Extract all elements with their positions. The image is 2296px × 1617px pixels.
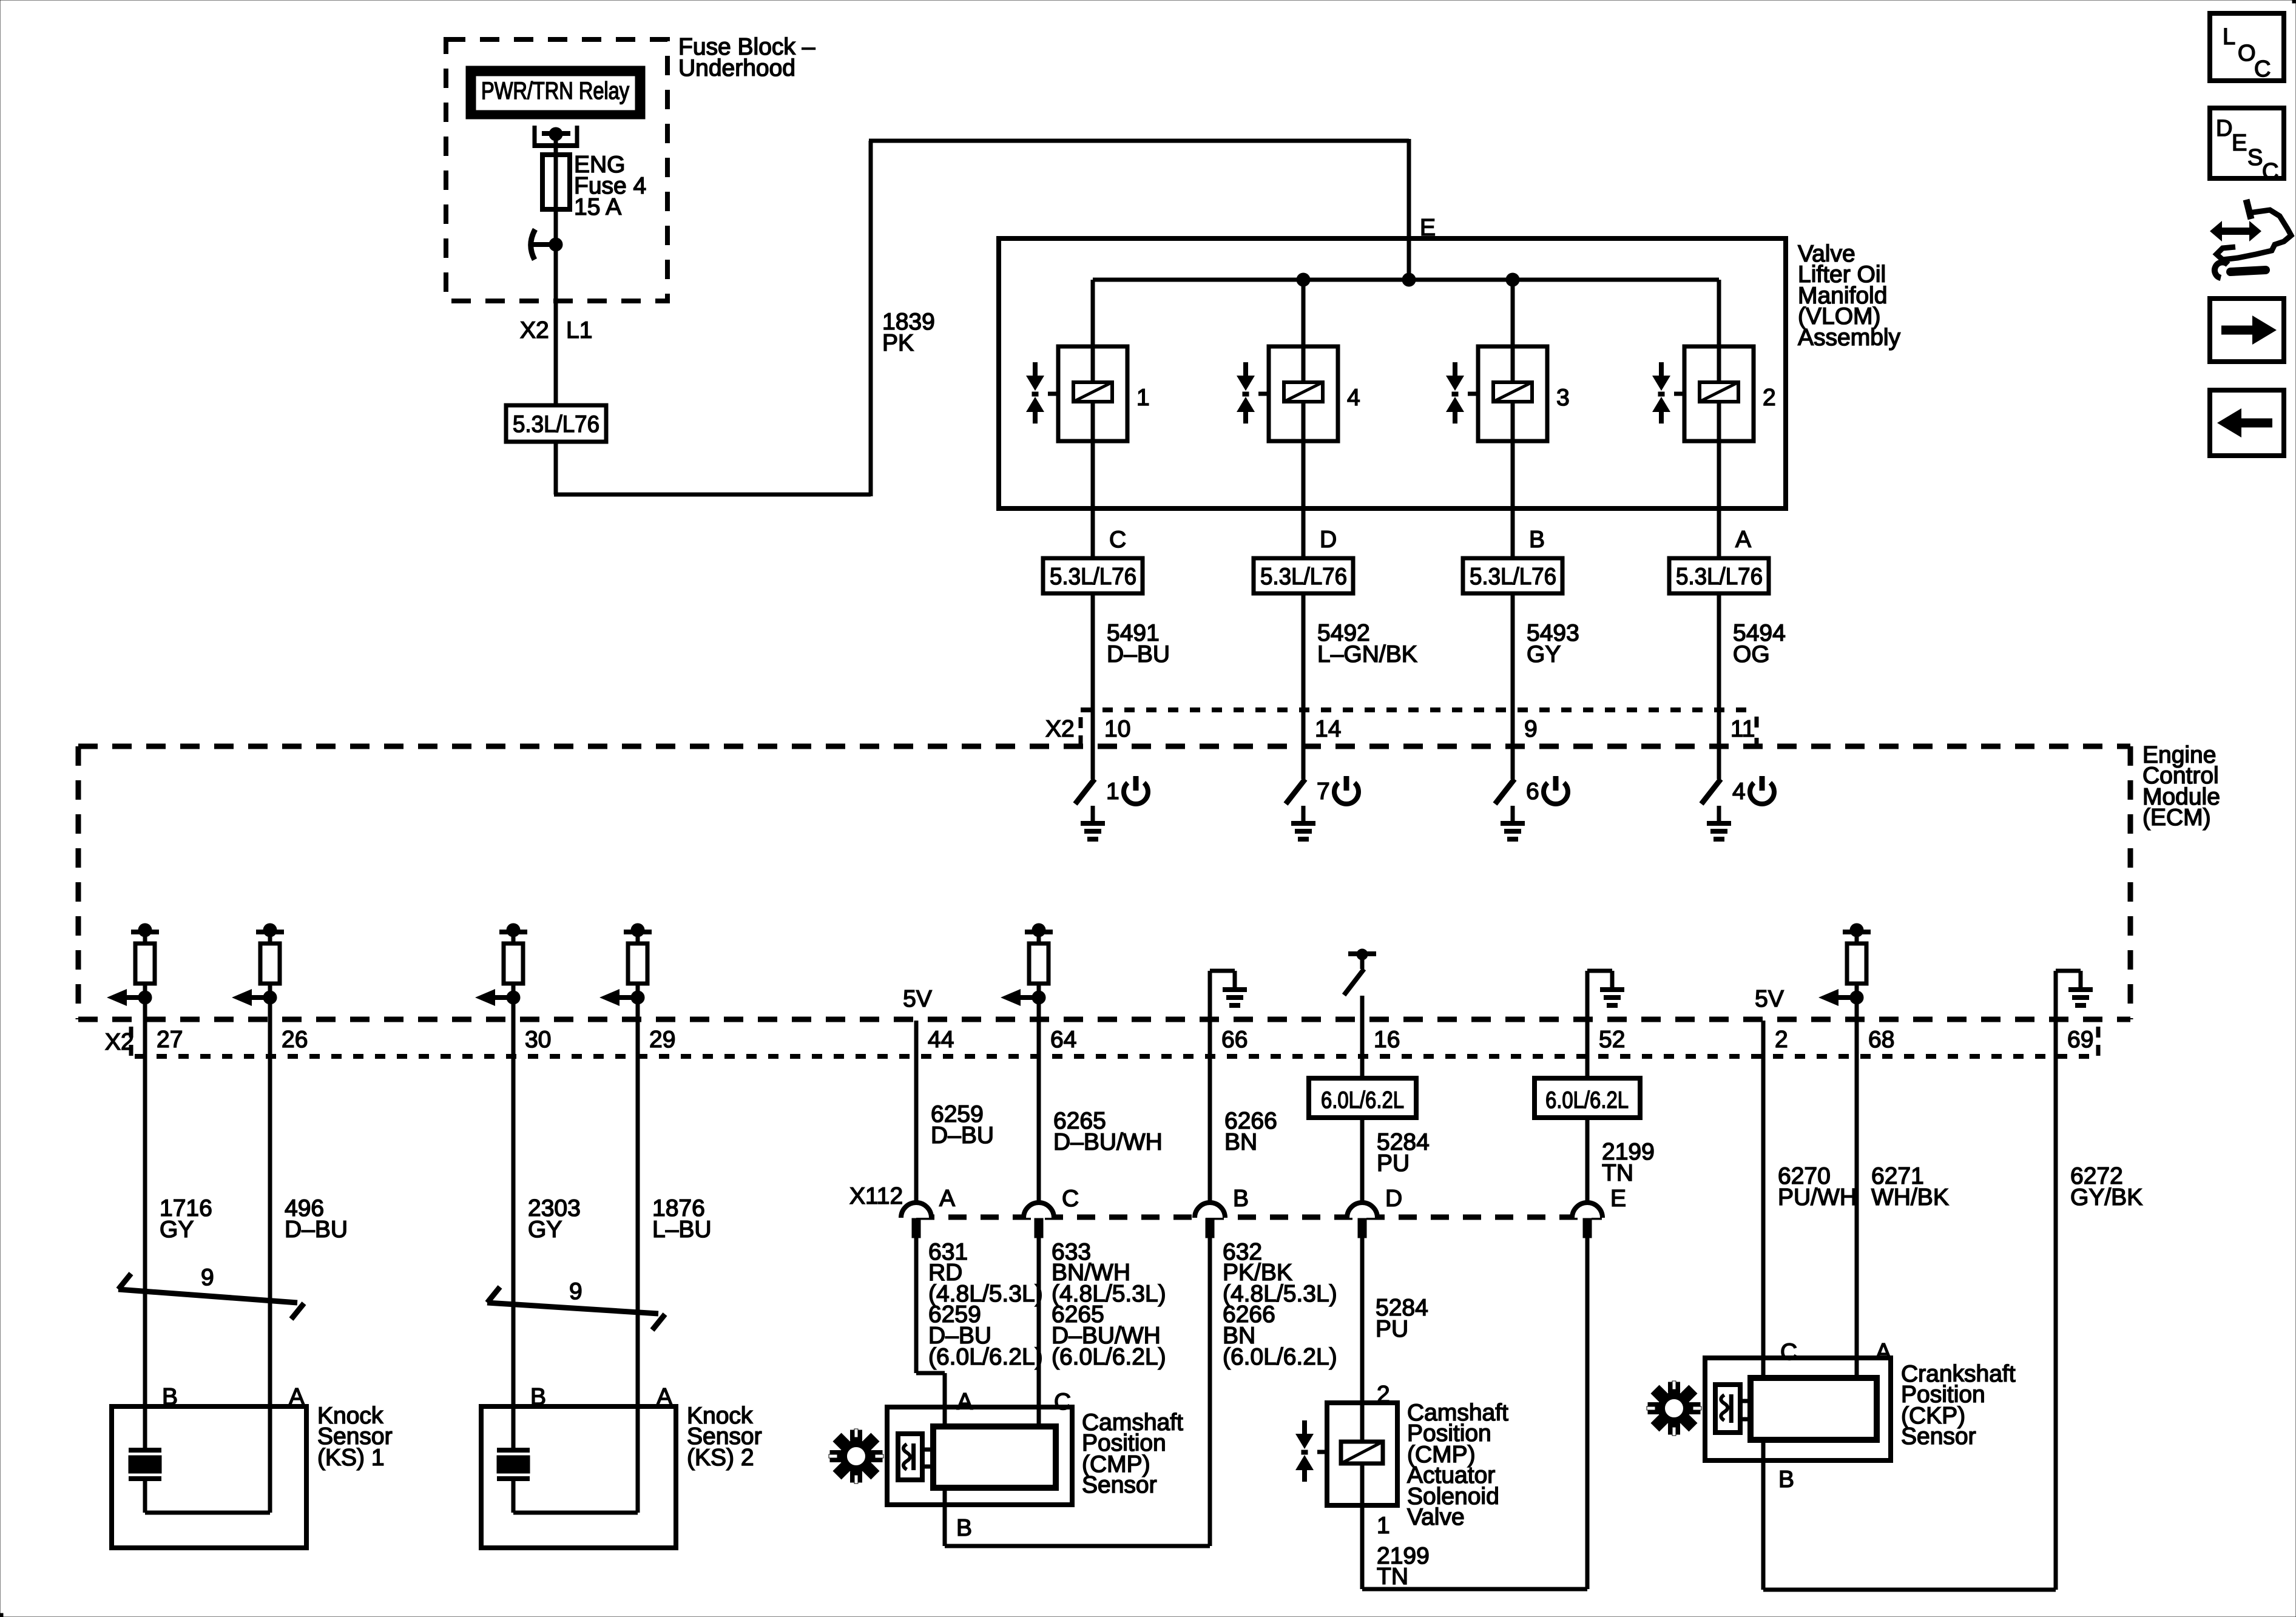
svg-text:GY: GY [1527,641,1561,667]
svg-text:PU: PU [1377,1150,1410,1176]
connector X2 (ECM bottom) dotted line [135,1054,2096,1059]
svg-text:E: E [1610,1186,1626,1212]
svg-text:O: O [2238,41,2256,66]
wire 2199 TN (pin 52) [1585,1021,1590,1589]
svg-text:5V: 5V [1755,986,1784,1012]
svg-text:3: 3 [1556,385,1570,411]
wire switch to 5.3L box [554,245,558,408]
X112 pin A label [939,1186,955,1212]
CMP actuator pin 1 label [1377,1513,1390,1539]
VLOM solenoid valve 3 [1446,280,1570,508]
svg-text:L–BU: L–BU [652,1217,712,1243]
wire solenoid 4 to connector [1302,508,1306,748]
svg-text:15 A: 15 A [574,194,621,220]
svg-text:30: 30 [525,1027,551,1053]
VLOM label [1798,241,1901,351]
CMP sensor hall element [898,1434,922,1480]
connector X2 left bracket [1079,717,1083,745]
wire label 5493 GY [1527,620,1579,667]
ECM pin 52 label [1599,1027,1625,1053]
icon hand with wrench [2210,200,2291,278]
CKP sensor element links [1740,1401,1751,1419]
svg-text:69: 69 [2067,1027,2093,1053]
fuse ENG Fuse 4 15A [542,152,646,220]
KS1 pin B label [162,1384,178,1410]
knock sensor KS2 label [687,1403,762,1471]
engine option box 5.3L/L76 [506,405,606,442]
connector X112 pin B [1195,1203,1225,1238]
ECM dashed box [78,746,2130,1019]
knock sensor KS1 box [112,1406,306,1548]
CMP sensor pin C label [1054,1389,1071,1415]
wire solenoid 2 to connector [1717,508,1721,748]
svg-text:9: 9 [569,1278,582,1305]
knock sensor KS2 box [481,1406,676,1548]
svg-text:D–BU: D–BU [285,1217,348,1243]
wire label 631 RD / 6259 D-BU [928,1239,1043,1370]
wire label 632 PK/BK / 6266 BN [1223,1239,1337,1370]
CKP sensor wire B [1763,1460,2056,1590]
connector X112 label [849,1183,903,1209]
svg-text:4: 4 [1347,385,1360,411]
relay output terminal bracket [533,126,579,148]
svg-text:S: S [2247,145,2263,170]
svg-text:Sensor: Sensor [1901,1423,1976,1450]
wire 6270 PU/WH (pin 2) [1761,1021,1766,1590]
CMP actuator label [1407,1400,1508,1530]
svg-text:D: D [2216,116,2232,141]
svg-text:C: C [2254,56,2271,82]
twisted pair label 9 (KS1) [201,1264,214,1291]
wire label 496 D-BU [285,1195,348,1243]
connector X112 pin A [901,1203,931,1238]
CKP sensor gear icon [1647,1381,1701,1436]
knock sensor KS1 internal wire [145,1511,270,1515]
svg-text:5.3L/L76: 5.3L/L76 [1676,564,1763,590]
svg-text:14: 14 [1315,716,1341,742]
VLOM solenoid valve 4 [1237,280,1360,508]
svg-text:X2: X2 [520,317,549,343]
VLOM pin B label [1529,527,1545,553]
svg-text:44: 44 [928,1027,954,1053]
engine option box 5.3L/L76 (B) [1463,558,1562,593]
CKP sensor hall element [1715,1385,1740,1433]
wire label 633 BN/WH / 6265 D-BU/WH [1052,1239,1166,1370]
ECM pull-up resistor pin 26 [232,923,284,1021]
svg-text:B: B [530,1384,546,1410]
svg-text:9: 9 [201,1264,214,1291]
pin 10 label [1104,716,1130,742]
fuse block - underhood dashed box [446,39,667,301]
ECM low-side driver 4 [1701,746,1774,839]
CKP sensor label [1901,1361,2016,1450]
svg-text:6.0L/6.2L: 6.0L/6.2L [1545,1087,1629,1113]
engine option box 5.3L/L76 (D) [1254,558,1353,593]
wire 2303 GY (pin 30) [512,1021,516,1450]
wire label 6271 WH/BK [1871,1163,1949,1210]
CMP sensor body [933,1426,1056,1488]
svg-text:L1: L1 [566,317,592,343]
CMP actuator valve symbol [1295,1420,1327,1482]
engine option box 6.0L/6.2L (pin 16) [1309,1078,1416,1118]
connector X2 (bottom) label [105,1029,134,1055]
wire label 5491 D–BU [1107,620,1170,667]
svg-text:(ECM): (ECM) [2142,805,2211,831]
svg-text:C: C [1062,1186,1079,1212]
ECM pin 64 label [1050,1027,1076,1053]
svg-text:PU: PU [1376,1316,1408,1342]
svg-text:5.3L/L76: 5.3L/L76 [513,411,599,437]
CKP sensor pin C label [1780,1339,1797,1365]
svg-text:6: 6 [1526,778,1539,805]
wire 6266 BN (pin 66) [1208,1021,1212,1546]
twisted pair symbol KS2 [487,1287,665,1330]
svg-text:C: C [1054,1389,1071,1415]
twisted pair symbol KS1 [118,1274,304,1319]
svg-text:1: 1 [1136,385,1150,411]
CMP sensor pin A label [957,1389,973,1415]
wire label 2199 TN [1602,1139,1655,1186]
connector X112 dashed line [916,1215,1602,1220]
wire label 5284 PU (below X112) [1376,1295,1428,1342]
svg-text:11: 11 [1730,716,1755,742]
svg-text:4: 4 [1732,778,1746,805]
ECM low-side driver 1 [1075,746,1148,839]
svg-text:B: B [1778,1467,1794,1493]
svg-text:X2: X2 [1045,716,1075,742]
wire label 6272 GY/BK [2070,1163,2142,1210]
knock sensor KS1 label [317,1403,393,1471]
svg-text:E: E [2232,130,2247,156]
svg-text:52: 52 [1599,1027,1625,1053]
ECM pin 2 label [1775,1027,1788,1053]
svg-text:27: 27 [157,1027,183,1053]
connector X2 bottom right bracket [2096,1027,2101,1056]
svg-text:BN: BN [1224,1129,1257,1155]
CMP sensor wire B [945,1488,1210,1546]
wire 2199 TN (actuator return) [1362,1505,1587,1589]
wire label 6259 D-BU [931,1101,994,1149]
ECM internal ground pin 69 [2056,971,2093,1021]
connector X2 (VLOM-ECM) dotted line [1081,707,1757,712]
svg-text:Valve: Valve [1407,1504,1465,1530]
icon box arrow right [2210,299,2284,362]
svg-text:2: 2 [1775,1027,1788,1053]
page corner mark top right [2292,0,2296,3]
ECM internal switch pin 16 [1344,949,1376,1021]
ECM pin 30 label [525,1027,551,1053]
connector X2 bottom left bracket [129,1027,133,1056]
VLOM solenoid valve 1 [1026,280,1150,508]
wire label 2303 GY [528,1195,581,1243]
ECM pin 69 label [2067,1027,2093,1053]
ECM pin 66 label [1221,1027,1248,1053]
svg-text:A: A [289,1384,305,1410]
svg-text:9: 9 [1524,716,1538,742]
svg-text:7: 7 [1317,778,1330,805]
svg-text:A: A [957,1389,973,1415]
pin 9 label [1524,716,1538,742]
svg-text:D: D [1320,527,1337,553]
svg-text:(6.0L/6.2L): (6.0L/6.2L) [1223,1344,1337,1370]
CMP sensor gear icon [829,1429,883,1484]
svg-text:PK: PK [882,330,914,356]
svg-text:B: B [1529,527,1545,553]
wire 1876 L-BU (pin 29) [636,1021,640,1513]
svg-text:29: 29 [649,1027,675,1053]
connector X2 label [1045,716,1075,742]
CMP sensor element links [922,1450,933,1467]
svg-text:(6.0L/6.2L): (6.0L/6.2L) [928,1344,1043,1370]
svg-text:(KS) 2: (KS) 2 [687,1445,754,1471]
svg-text:L–GN/BK: L–GN/BK [1317,641,1417,667]
svg-text:66: 66 [1221,1027,1248,1053]
ECM pull-up resistor pin 68 [1818,923,1871,1021]
ECM low-side driver 6 [1495,746,1568,839]
bus junction node dots [1297,273,1519,286]
ECM pull-up resistor pin 29 [599,923,652,1021]
knock sensor KS2 internal wire [513,1511,638,1515]
ECM 5V supply pin 44 [903,986,932,1012]
relay PWR/TRN [466,66,645,119]
ECM 5V supply pin 2 [1755,986,1784,1012]
svg-text:2: 2 [1763,385,1776,411]
wire label 6266 BN [1224,1108,1277,1155]
icon box DESC [2210,108,2284,184]
svg-text:Underhood: Underhood [678,55,795,81]
svg-text:26: 26 [282,1027,308,1053]
svg-text:D–BU/WH: D–BU/WH [1053,1129,1163,1155]
wire label 1716 GY [160,1195,212,1243]
svg-text:C: C [2262,159,2278,184]
svg-text:5.3L/L76: 5.3L/L76 [1470,564,1556,590]
wire solenoid 1 to connector [1091,508,1095,748]
ECM internal ground pin 52 [1587,971,1624,1021]
CMP actuator coil [1341,1403,1383,1505]
wire 5284 PU (pin 16) [1360,1021,1365,1403]
VLOM pin C label [1109,527,1126,553]
svg-text:PU/WH: PU/WH [1778,1184,1857,1210]
wire 1716 GY (pin 27) [143,1021,147,1450]
CMP actuator pin 2 label [1377,1382,1390,1408]
svg-text:GY: GY [160,1217,194,1243]
svg-text:16: 16 [1374,1027,1400,1053]
wire 6272 GY/BK (pin 69) [2054,1021,2058,1590]
X112 pin C label [1062,1186,1079,1212]
knock sensor KS2 element [497,1450,530,1513]
svg-text:A: A [1735,527,1751,553]
svg-text:5.3L/L76: 5.3L/L76 [1050,564,1136,590]
svg-text:A: A [657,1384,672,1410]
svg-text:WH/BK: WH/BK [1871,1184,1949,1210]
connector X112 pin E [1572,1203,1602,1238]
svg-text:10: 10 [1104,716,1130,742]
CMP sensor outer box [887,1407,1072,1505]
svg-text:L: L [2223,24,2235,50]
ECM pin 44 label [928,1027,954,1053]
svg-text:TN: TN [1602,1160,1633,1186]
wire label 5284 PU [1377,1129,1430,1176]
KS1 pin A label [289,1384,305,1410]
ECM pull-up resistor pin 64 [1001,923,1053,1021]
ECM pull-up resistor pin 27 [107,923,159,1021]
wire solenoid 3 to connector [1511,508,1515,748]
KS2 pin A label [657,1384,672,1410]
wire label 5492 L–GN/BK [1317,620,1417,667]
CMP sensor label [1082,1409,1183,1498]
wire 496 D-BU (pin 26) [268,1021,272,1513]
svg-text:(KS) 1: (KS) 1 [317,1445,385,1471]
connector X2 L1 labels [520,317,592,343]
svg-text:GY: GY [528,1217,562,1243]
ECM label [2142,742,2220,831]
VLOM pin D label [1320,527,1337,553]
X112 pin B label [1233,1186,1249,1212]
ECM pin 68 label [1868,1027,1894,1053]
svg-text:5.3L/L76: 5.3L/L76 [1260,564,1347,590]
svg-text:Sensor: Sensor [1082,1472,1157,1498]
icon box arrow left [2210,390,2284,456]
ECM pin 16 label [1374,1027,1400,1053]
wire label 1839 PK [882,309,935,356]
wire fuse to switch [554,209,558,238]
wire 1839 PK run [554,139,1409,496]
pin 11 label [1730,716,1755,742]
svg-text:B: B [162,1384,178,1410]
svg-text:B: B [956,1515,972,1541]
svg-text:64: 64 [1050,1027,1076,1053]
svg-text:D–BU: D–BU [1107,641,1170,667]
ECM pin 26 label [282,1027,308,1053]
wire label 5494 OG [1733,620,1786,667]
VLOM assembly box [999,238,1786,508]
svg-text:PWR/TRN Relay: PWR/TRN Relay [481,78,629,104]
svg-text:X112: X112 [849,1183,903,1209]
svg-text:Assembly: Assembly [1798,325,1901,351]
svg-text:D–BU: D–BU [931,1122,994,1149]
svg-text:(6.0L/6.2L): (6.0L/6.2L) [1052,1344,1166,1370]
KS2 pin B label [530,1384,546,1410]
wire label 1876 L-BU [652,1195,712,1243]
svg-text:5V: 5V [903,986,932,1012]
svg-text:C: C [1780,1339,1797,1365]
X112 pin E label [1610,1186,1626,1212]
CKP sensor pin A label [1876,1339,1891,1365]
svg-text:B: B [1233,1186,1249,1212]
svg-text:1: 1 [1377,1513,1390,1539]
connector X112 pin D [1347,1203,1377,1238]
svg-text:1: 1 [1106,778,1119,805]
connector X112 pin C [1024,1203,1054,1238]
wire 6265 D-BU/WH (pin 64) [1037,1021,1041,1426]
svg-text:A: A [939,1186,955,1212]
twisted pair label 9 (KS2) [569,1278,582,1305]
pin 14 label [1315,716,1341,742]
svg-text:OG: OG [1733,641,1770,667]
svg-text:TN: TN [1377,1564,1408,1590]
wire 6271 WH/BK (pin 68) [1855,1021,1859,1378]
VLOM pin A label [1735,527,1751,553]
svg-text:D: D [1385,1186,1402,1212]
engine option box 6.0L/6.2L (pin 52) [1535,1078,1640,1118]
CMP sensor pin B label [956,1515,972,1541]
svg-text:6.0L/6.2L: 6.0L/6.2L [1321,1087,1404,1113]
ECM pull-up resistor pin 30 [475,923,527,1021]
ECM low-side driver 7 [1286,746,1359,839]
ECM pin 27 label [157,1027,183,1053]
svg-text:C: C [1109,527,1126,553]
wire relay to fuse [554,136,558,155]
VLOM solenoid valve 2 [1652,280,1776,508]
CKP sensor pin B label [1778,1467,1794,1493]
icon box LOC [2210,13,2284,82]
fuse block label [678,34,815,81]
engine option box 5.3L/L76 (A) [1669,558,1769,593]
wire label 2199 TN (bottom) [1377,1543,1430,1590]
ECM internal ground pin 66 [1210,971,1247,1021]
svg-text:68: 68 [1868,1027,1894,1053]
svg-text:GY/BK: GY/BK [2070,1184,2142,1210]
relay contact switch [530,229,562,260]
wire 6259 D-BU (pin 44) [916,1021,945,1546]
ECM pin 29 label [649,1027,675,1053]
page corner mark bottom left [0,1613,3,1617]
CKP sensor outer box [1705,1358,1891,1460]
X112 pin D label [1385,1186,1402,1212]
wire label 6270 PU/WH [1778,1163,1857,1210]
CKP sensor body [1751,1378,1877,1440]
wire label 6265 D-BU/WH [1053,1108,1163,1155]
connector X2 right bracket [1755,717,1759,745]
node E label [1420,215,1436,241]
knock sensor KS1 element [129,1450,161,1513]
CMP actuator solenoid box [1327,1403,1397,1505]
engine option box 5.3L/L76 (C) [1043,558,1143,593]
solenoid supply bus wire [1093,278,1719,282]
